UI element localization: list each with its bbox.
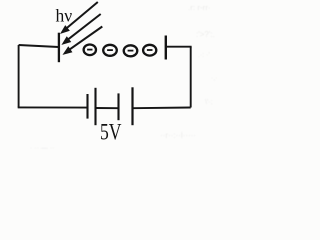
electron e3 [124, 45, 138, 56]
svg-text:· ·· — ··: · ·· — ·· [30, 145, 55, 152]
electron e1 [84, 45, 96, 56]
svg-text:.·: ·': .·: ·' [198, 52, 210, 59]
battery cell 2 negative bar (short) [117, 93, 119, 120]
svg-text:··r··:··l·····: ··r··:··l····· [160, 131, 196, 140]
electron e2 [103, 45, 117, 56]
photon arrow 1 [61, 2, 98, 33]
battery cell 1 positive bar (tall) [94, 88, 96, 125]
battery cell 2 positive bar (tall) [131, 87, 133, 125]
wire right vertical [190, 47, 192, 108]
svg-text:hν: hν [56, 6, 73, 26]
wire between battery cells [96, 107, 119, 109]
svg-text:·,·: ·,· [211, 75, 218, 82]
svg-text:5V: 5V [100, 120, 122, 146]
wire top-left (cathode to left corner) [19, 45, 59, 47]
wire top-right (right corner to anode) [167, 46, 192, 48]
wire left vertical [18, 45, 20, 107]
anode plate (right electrode) [165, 36, 167, 60]
photon arrow 3 [63, 27, 102, 55]
wire bottom-left (to battery) [18, 106, 88, 108]
svg-text:.r: r-rr·: .r: r-rr· [188, 3, 211, 12]
svg-text:\'·;: \'·; [205, 99, 213, 106]
electron e4 [143, 45, 156, 56]
battery cell 1 negative bar (short) [86, 94, 88, 119]
wire bottom-right (battery to right corner) [133, 107, 191, 110]
ghost print-through smudges (decorative) [30, 3, 218, 152]
cathode plate (left electrode) [58, 33, 60, 63]
svg-text::'>?':.: :'>?':. [196, 30, 215, 39]
photon arrow 2 [62, 14, 100, 44]
